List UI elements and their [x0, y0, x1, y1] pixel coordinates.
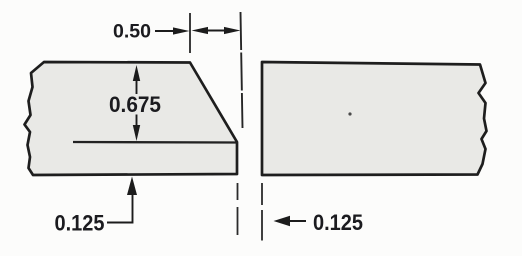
right plate	[262, 62, 487, 175]
dimension 0.675 up arrow	[133, 65, 140, 94]
dimension 0.125 right arrow	[274, 216, 307, 226]
dashed line below left plate edge	[237, 183, 239, 235]
dimension 0.675 down arrow	[133, 115, 140, 142]
dimension 0.50 leader arrow	[155, 27, 190, 34]
svg-text:0.50: 0.50	[113, 21, 151, 43]
svg-text:0.125: 0.125	[55, 211, 105, 236]
surface speck	[348, 112, 351, 115]
extension line at joint edge	[241, 12, 243, 128]
dashed line below right plate edge	[261, 183, 263, 241]
extension line at bevel shoulder	[189, 13, 191, 53]
dimension 0.125 left leader with arrow	[107, 177, 137, 223]
svg-text:0.125: 0.125	[313, 210, 363, 235]
svg-text:0.675: 0.675	[109, 92, 161, 117]
dimension 0.50 double arrow	[192, 27, 241, 34]
left plate root face line	[73, 141, 238, 144]
left plate	[25, 62, 238, 175]
